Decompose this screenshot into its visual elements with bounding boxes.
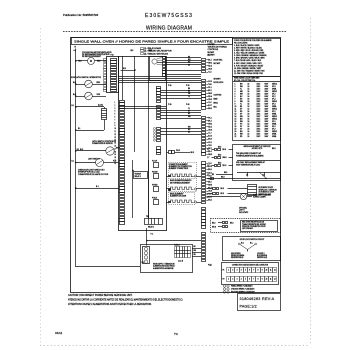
svg-text:BN-8: BN-8: [208, 108, 212, 110]
svg-text:BN-2: BN-2: [208, 200, 212, 202]
control board edge connector: [120, 101, 125, 225]
svg-text:WH: WH: [240, 91, 244, 93]
svg-text:16: 16: [248, 106, 250, 108]
svg-text:300V: 300V: [265, 121, 270, 123]
power pair wires 1: [119, 77, 201, 79]
svg-text:RD-8: RD-8: [223, 165, 227, 167]
svg-text:BK-8: BK-8: [212, 222, 216, 224]
svg-text:WH: WH: [240, 93, 244, 95]
svg-text:19: 19: [115, 154, 117, 156]
part number text: [240, 297, 275, 301]
svg-text:1: 1: [115, 102, 116, 104]
svg-text:600V: 600V: [265, 124, 270, 126]
svg-text:UNLOCKED /: UNLOCKED /: [231, 253, 241, 255]
svg-text:600V: 600V: [265, 101, 270, 103]
svg-text:P1 BK-8: P1 BK-8: [174, 245, 180, 247]
svg-text:18: 18: [235, 126, 237, 128]
svg-text:RD: RD: [240, 111, 243, 113]
svg-text:10: 10: [115, 128, 117, 130]
svg-text:16: 16: [235, 121, 237, 123]
svg-text:18: 18: [248, 103, 250, 105]
latch switch 2: [85, 92, 93, 100]
svg-text:1- BLK / BLACK / NEGRO / NOIR: 1- BLK / BLACK / NEGRO / NOIR: [234, 44, 260, 47]
svg-text:SEW-2: SEW-2: [272, 83, 277, 85]
svg-text:GRY/WHT: GRY/WHT: [214, 79, 221, 81]
latch switch 1 labels: [73, 82, 101, 84]
svg-text:12: 12: [248, 109, 250, 111]
svg-text:BK-8: BK-8: [221, 188, 225, 190]
svg-text:BN: BN: [240, 83, 243, 85]
diagram frame: [71, 38, 281, 293]
door light switch label: [72, 159, 117, 176]
svg-text:WH-2: WH-2: [208, 62, 212, 64]
svg-text:9: 9: [115, 125, 116, 127]
svg-text:BU: BU: [240, 96, 243, 98]
svg-text:12: 12: [274, 279, 276, 281]
svg-text:14: 14: [248, 96, 250, 98]
svg-text:105C: 105C: [257, 124, 262, 126]
svg-text:2: 2: [232, 279, 233, 281]
svg-text:BK-8: BK-8: [218, 162, 221, 164]
svg-text:4: 4: [235, 91, 236, 93]
svg-text:GY: GY: [188, 111, 190, 113]
svg-text:BU-1: BU-1: [208, 197, 212, 199]
svg-text:TARJETA DE FUERZA: TARJETA DE FUERZA: [208, 45, 228, 48]
svg-text:GY-8: GY-8: [208, 81, 212, 83]
svg-text:150C: 150C: [257, 98, 262, 100]
svg-text:SRML: SRML: [272, 106, 277, 108]
svg-text:DEVERROUILLE: DEVERROUILLE: [231, 257, 243, 259]
publication number text: [63, 13, 99, 17]
wire gauge table: [233, 77, 281, 141]
svg-text:YL-5: YL-5: [208, 72, 211, 74]
svg-text:BAKE: BAKE: [214, 98, 218, 101]
svg-text:WH: WH: [188, 127, 191, 129]
latch position switch wire: [76, 149, 106, 151]
neutral rail label: [74, 47, 77, 52]
svg-text:4: 4: [241, 270, 242, 272]
svg-text:200C: 200C: [257, 86, 262, 88]
svg-text:18: 18: [248, 101, 250, 103]
svg-text:16: 16: [115, 146, 117, 148]
svg-text:RD-5: RD-5: [208, 127, 212, 129]
svg-text:SRML: SRML: [272, 88, 277, 90]
power strip title: [208, 55, 210, 57]
svg-text:105C: 105C: [257, 91, 262, 93]
svg-text:(1) / RELAY BOARD: (1) / RELAY BOARD: [144, 47, 162, 50]
svg-text:12: 12: [235, 111, 237, 113]
svg-text:SINGLE WALL OVEN // HORNO DE P: SINGLE WALL OVEN // HORNO DE PARED SIMPL…: [74, 40, 229, 44]
svg-text:BN: BN: [188, 91, 190, 93]
svg-text:WH-8: WH-8: [223, 157, 227, 159]
svg-text:1: 1: [235, 83, 236, 85]
board inner wire B: [134, 56, 136, 152]
svg-text:RD: RD: [240, 98, 243, 100]
svg-text:8: 8: [258, 279, 259, 281]
svg-text:BN: BN: [240, 131, 243, 133]
board inner wire 2: [132, 160, 134, 218]
svg-text:SF-2: SF-2: [272, 96, 276, 98]
svg-text:B-1: B-1: [77, 149, 80, 151]
svg-text:8: 8: [235, 101, 236, 103]
svg-text:12: 12: [248, 124, 250, 126]
svg-text:150C: 150C: [257, 119, 262, 121]
top dashed separator line: [63, 31, 287, 33]
svg-text:BN: BN: [240, 119, 243, 121]
svg-text:VERROUILLE: VERROUILLE: [257, 257, 267, 259]
plug stack 3: [157, 106, 161, 120]
svg-text:3: 3: [237, 279, 238, 281]
right dashed fold line: [310, 18, 312, 345]
svg-text:P2: P2: [223, 279, 225, 281]
svg-text:BN-1: BN-1: [208, 169, 212, 171]
svg-text:200C: 200C: [257, 114, 262, 116]
svg-text:BK-8: BK-8: [218, 146, 221, 148]
door latch motor junction: [75, 106, 77, 108]
svg-text:BK-4: BK-4: [208, 151, 212, 153]
svg-text:105C: 105C: [257, 103, 262, 105]
svg-text:PK-4: PK-4: [208, 178, 212, 180]
svg-text:600V: 600V: [265, 93, 270, 95]
svg-text:B-1: B-1: [72, 105, 75, 107]
svg-text:600V: 600V: [265, 96, 270, 98]
svg-text:ATENCION:CORTAR LA CORRIENTE A: ATENCION:CORTAR LA CORRIENTE ANTES DE RE…: [68, 299, 183, 302]
svg-text:SRML: SRML: [272, 124, 277, 126]
svg-text:P1(2): P1(2): [208, 265, 212, 267]
svg-text:DE REFROIDISSEMENT: DE REFROIDISSEMENT: [82, 56, 101, 58]
svg-text:3: 3: [235, 88, 236, 90]
date text: [55, 331, 63, 335]
convection fan motor: [152, 58, 163, 66]
svg-text:15: 15: [115, 143, 117, 145]
svg-text:SEW-2: SEW-2: [272, 119, 277, 121]
svg-text:BLK: BLK: [73, 94, 77, 96]
svg-text:11: 11: [235, 109, 237, 111]
interlock wires: [207, 188, 248, 196]
interlock connector: [248, 185, 257, 196]
svg-text:SRML: SRML: [272, 114, 277, 116]
latch switch 1 wire: [76, 84, 106, 86]
svg-text:2- WHT / WHITE / BLANCO / BLAN: 2- WHT / WHITE / BLANCO / BLANC: [234, 46, 263, 49]
svg-text:M: M: [90, 60, 92, 63]
svg-text:150C: 150C: [257, 136, 262, 138]
svg-text:16: 16: [248, 93, 250, 95]
svg-text:600V: 600V: [265, 103, 270, 105]
svg-text:Publication No: 5995580796: Publication No: 5995580796: [63, 13, 99, 17]
svg-text:CONVECTION ELEMENT: CONVECTION ELEMENT: [169, 164, 188, 166]
svg-text:BK: BK: [240, 106, 243, 108]
svg-text:BK-8: BK-8: [230, 222, 234, 224]
svg-text:6: 6: [235, 96, 236, 98]
svg-text:14: 14: [235, 116, 237, 118]
svg-text:TRANSF.: TRANSF.: [135, 172, 142, 175]
svg-text:GY: GY: [240, 129, 243, 131]
svg-text:SF-2: SF-2: [272, 129, 276, 131]
svg-text:P-1: P-1: [151, 234, 154, 236]
svg-text:P14: P14: [110, 55, 113, 57]
svg-text:300V: 300V: [265, 106, 270, 108]
svg-text:300V: 300V: [265, 126, 270, 128]
board inner wire A: [122, 56, 124, 100]
svg-text:8- GRY / GRAY / GRIS / GRIS /: 8- GRY / GRAY / GRIS / GRIS / GRY: [234, 62, 263, 65]
svg-text:20: 20: [235, 131, 237, 133]
svg-text:SEW-2: SEW-2: [272, 109, 277, 111]
svg-text:5: 5: [245, 270, 246, 272]
svg-text:18: 18: [248, 129, 250, 131]
svg-text:COMMUTATEUR VERROU: COMMUTATEUR VERROU: [92, 142, 114, 145]
svg-text:OR-5: OR-5: [208, 99, 212, 101]
svg-text:22: 22: [235, 136, 237, 138]
latch switch 1: [85, 80, 93, 88]
svg-text:11: 11: [270, 279, 272, 281]
power pair wires 2: [119, 81, 201, 83]
svg-text:7: 7: [253, 270, 254, 272]
convection element: [169, 163, 197, 178]
svg-text:BLK/WHT: BLK/WHT: [208, 52, 215, 54]
svg-text:OR-6: OR-6: [208, 130, 212, 132]
svg-text:P-30: P-30: [168, 85, 171, 87]
latch position switch: [106, 147, 114, 155]
board inner label box: [134, 172, 148, 179]
neutral feed wire: [75, 186, 119, 189]
svg-text:6: 6: [115, 117, 116, 119]
wire colour legend box: [233, 39, 281, 77]
oven light bulb: [240, 193, 246, 199]
svg-text:CONV FAN: CONV FAN: [214, 94, 222, 97]
svg-text:BK: BK: [188, 57, 190, 59]
svg-text:BK-8: BK-8: [224, 172, 227, 174]
oven relay board box: [119, 57, 167, 231]
svg-text:3: 3: [237, 270, 238, 272]
svg-text:WH-4: WH-4: [208, 123, 212, 125]
svg-text:B-1: B-1: [78, 128, 81, 130]
svg-text:RELAY 2: RELAY 2: [148, 226, 154, 229]
svg-text:P-30: P-30: [186, 104, 189, 106]
svg-text:TN-2: TN-2: [208, 145, 211, 147]
svg-text:1: 1: [228, 270, 229, 272]
svg-text:BK-8: BK-8: [221, 177, 225, 179]
svg-text:HIGH SUPPLY / TENSION DE: HIGH SUPPLY / TENSION DE: [153, 264, 175, 266]
svg-text:150C: 150C: [257, 121, 262, 123]
board bottom connector: [145, 216, 163, 229]
door latch motor wire: [76, 107, 105, 131]
svg-text:B-1: B-1: [72, 160, 75, 162]
svg-text:GY-2: GY-2: [208, 172, 212, 174]
svg-text:105C: 105C: [257, 111, 262, 113]
svg-text:WH: WH: [240, 101, 244, 103]
optional light label: [239, 207, 248, 214]
svg-text:200C: 200C: [257, 129, 262, 131]
power board legend: [208, 44, 228, 57]
svg-text:SF-2: SF-2: [272, 98, 276, 100]
svg-text:16: 16: [248, 83, 250, 85]
svg-text:200C: 200C: [257, 101, 262, 103]
svg-text:18: 18: [115, 151, 117, 153]
svg-text:WIRE GAUGE COLOR TEMP AWG: WIRE GAUGE COLOR TEMP AWG: [234, 77, 260, 80]
svg-text:300V: 300V: [265, 91, 270, 93]
svg-text:RD: RD: [194, 254, 197, 256]
part number box: [238, 294, 281, 311]
svg-text:11- TAN / TAN / HABANO / BEIGE: 11- TAN / TAN / HABANO / BEIGE / TAN: [234, 69, 265, 72]
latch switch 2 labels: [73, 94, 101, 96]
svg-text:BLK WHT: BLK WHT: [214, 63, 221, 65]
svg-text:10: 10: [266, 270, 268, 272]
bottom dashed fold line: [40, 345, 310, 347]
board tap wire: [121, 50, 152, 70]
svg-text:DOOR UNLK: DOOR UNLK: [214, 60, 223, 62]
svg-text:600V: 600V: [265, 134, 270, 136]
power strip pin labels: [207, 59, 213, 201]
svg-text:600V: 600V: [265, 83, 270, 85]
svg-text:PK-2: PK-2: [208, 117, 212, 119]
svg-text:5: 5: [235, 93, 236, 95]
svg-text:POWER/ALIMENTATION ALAMBRE: POWER/ALIMENTATION ALAMBRE: [236, 155, 264, 158]
high supply box: [141, 245, 193, 273]
svg-text:OR-4: OR-4: [208, 69, 212, 71]
svg-text:5: 5: [245, 279, 246, 281]
svg-text:BK-3: BK-3: [208, 120, 212, 122]
cooling fan wire: [76, 60, 106, 62]
svg-text:GY: GY: [240, 124, 243, 126]
svg-text:YL: YL: [240, 103, 242, 105]
svg-text:BRN: BRN: [97, 82, 101, 84]
svg-text:20: 20: [115, 157, 117, 159]
svg-text:13: 13: [235, 114, 237, 116]
page number text: [240, 304, 257, 308]
svg-text:150C: 150C: [257, 131, 262, 133]
svg-text:300V: 300V: [265, 136, 270, 138]
svg-text:10: 10: [266, 279, 268, 281]
svg-text:600V: 600V: [265, 98, 270, 100]
svg-text:TC: TC: [174, 332, 179, 336]
svg-text:YL-6: YL-6: [208, 102, 211, 104]
caution text line 2: [68, 299, 183, 302]
svg-text:10: 10: [235, 106, 237, 108]
svg-text:(Latch): (Latch): [98, 104, 103, 107]
svg-text:WH-8: WH-8: [212, 226, 216, 228]
svg-text:4: 4: [241, 279, 242, 281]
svg-text:YL-9: YL-9: [208, 194, 211, 196]
svg-text:SF-2: SF-2: [272, 93, 276, 95]
svg-text:4- YEL / YELLOW / AMARILLO / J: 4- YEL / YELLOW / AMARILLO / JAUNE: [234, 52, 265, 55]
svg-text:5- ORG / ORANGE / NARANJA / OR: 5- ORG / ORANGE / NARANJA / ORANGE: [234, 54, 267, 57]
left rail junctions: [75, 60, 77, 189]
svg-text:16: 16: [248, 119, 250, 121]
svg-text:14: 14: [115, 140, 117, 142]
svg-text:MAX OVEN RECEPTACLE DE: MAX OVEN RECEPTACLE DE: [242, 221, 264, 224]
svg-text:TN-9: TN-9: [208, 84, 211, 86]
left dashed fold line: [40, 28, 42, 345]
svg-text:BK-8: BK-8: [218, 154, 221, 156]
convection fan module box: [150, 57, 166, 81]
svg-text:2: 2: [115, 105, 116, 107]
svg-text:22: 22: [115, 163, 117, 165]
svg-text:ATTENTION:COUPEZ L'ALIMENTATIO: ATTENTION:COUPEZ L'ALIMENTATION AVANT D'…: [68, 303, 152, 306]
svg-text:14: 14: [248, 116, 250, 118]
svg-text:B-1: B-1: [96, 186, 99, 188]
svg-text:6- BRN / BROWN / CAFE / BRUN /: 6- BRN / BROWN / CAFE / BRUN / BRN: [234, 57, 265, 60]
svg-text:SRML: SRML: [272, 136, 277, 138]
plug stack 2: [157, 87, 161, 103]
svg-text:BU: BU: [188, 88, 190, 90]
svg-text:2: 2: [235, 86, 236, 88]
svg-text:WH-6: WH-6: [208, 184, 212, 186]
svg-text:BK-8: BK-8: [191, 152, 195, 154]
svg-text:6: 6: [249, 270, 250, 272]
svg-text:18: 18: [248, 98, 250, 100]
svg-text:4: 4: [115, 111, 116, 113]
power pair wires 3: [119, 107, 167, 109]
svg-text:WIRING DIAGRAM: WIRING DIAGRAM: [146, 25, 192, 31]
svg-text:CONNECTOR CODES/CODIGOS DEL CO: CONNECTOR CODES/CODIGOS DEL CONECTOR: [232, 265, 269, 267]
svg-text:16: 16: [248, 91, 250, 93]
svg-text:CODE COULEURS DE COLORES DE AL: CODE COULEURS DE COLORES DE ALAMBRE: [234, 39, 272, 42]
door light switch wire: [76, 162, 119, 164]
svg-text:YL-8: YL-8: [208, 163, 211, 165]
svg-text:8: 8: [258, 270, 259, 272]
svg-text:N.C.: N.C.: [250, 242, 254, 244]
svg-text:BROIL ELEMENT/: BROIL ELEMENT/: [170, 193, 184, 195]
wire band labels: [168, 57, 191, 134]
svg-text:105C: 105C: [257, 88, 262, 90]
board pin numbers: [115, 102, 117, 165]
svg-text:200C: 200C: [257, 93, 262, 95]
svg-text:200C: 200C: [257, 116, 262, 118]
svg-text:300V: 300V: [265, 119, 270, 121]
svg-text:2: 2: [232, 270, 233, 272]
svg-text:N: N: [75, 47, 77, 49]
svg-text:AUTOMATIC DOOR: AUTOMATIC DOOR: [259, 186, 274, 189]
svg-text:(3) / TABLEAU DES RELAIS: (3) / TABLEAU DES RELAIS: [144, 52, 169, 55]
svg-text:GY: GY: [240, 126, 243, 128]
svg-text:OR: OR: [188, 93, 191, 95]
cooling fan label: [82, 51, 112, 58]
svg-text:17: 17: [235, 124, 237, 126]
svg-text:OPTIONAL: OPTIONAL: [239, 207, 247, 210]
svg-text:BK-2: BK-2: [208, 90, 212, 92]
svg-text:Conn B: Conn B: [178, 261, 183, 263]
svg-text:105C: 105C: [257, 126, 262, 128]
svg-text:21: 21: [235, 134, 237, 136]
svg-text:7: 7: [115, 119, 116, 121]
caution text line 1: [68, 294, 133, 297]
power board connector strip: [202, 59, 206, 262]
svg-text:18: 18: [248, 121, 250, 123]
oven light label: [253, 195, 271, 199]
svg-text:12: 12: [115, 134, 117, 136]
wiring type legend: [223, 285, 255, 294]
P-1 feed wire: [146, 228, 212, 267]
plug stack 4: [153, 128, 160, 142]
svg-text:N.O.: N.O.: [241, 242, 245, 244]
svg-text:300V: 300V: [265, 109, 270, 111]
svg-text:18: 18: [248, 114, 250, 116]
svg-text:INTERLOCK / CERROJO: INTERLOCK / CERROJO: [259, 189, 278, 191]
svg-text:CAUTION: DISCONNECT POWER BEFO: CAUTION: DISCONNECT POWER BEFORE SERVICI…: [68, 294, 133, 297]
svg-text:BU: BU: [188, 132, 190, 134]
svg-text:P-30: P-30: [168, 104, 171, 106]
board inner wire C: [148, 56, 150, 218]
svg-text:19: 19: [235, 129, 237, 131]
svg-text:150C: 150C: [257, 106, 262, 108]
svg-text:15: 15: [235, 119, 237, 121]
svg-text:3: 3: [115, 108, 116, 110]
svg-text:105C: 105C: [257, 96, 262, 98]
svg-text:BLK: BLK: [73, 82, 77, 84]
svg-text:600V: 600V: [265, 86, 270, 88]
svg-text:12: 12: [248, 134, 250, 136]
svg-text:14: 14: [248, 126, 250, 128]
